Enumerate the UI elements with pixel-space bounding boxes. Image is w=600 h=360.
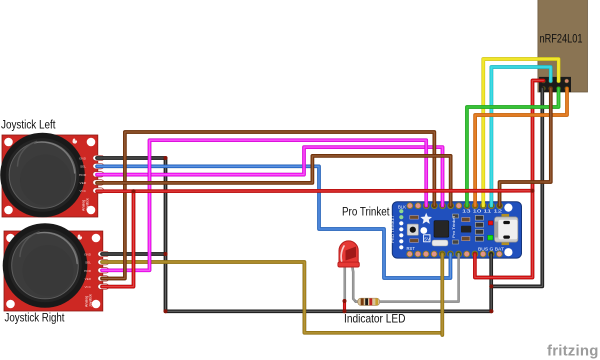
svg-text:Joystick: Joystick <box>89 294 93 307</box>
svg-text:13 10 11 12: 13 10 11 12 <box>462 209 503 214</box>
svg-text:5V: 5V <box>424 237 431 242</box>
svg-text:GND: GND <box>84 253 92 257</box>
svg-text:Pro Trinket: Pro Trinket <box>342 206 390 218</box>
svg-text:SEL: SEL <box>85 261 91 265</box>
svg-text:Indicator LED: Indicator LED <box>344 312 406 325</box>
svg-text:nRF24L01: nRF24L01 <box>540 32 583 46</box>
svg-text:GND: GND <box>79 157 87 161</box>
svg-text:VER: VER <box>85 277 92 281</box>
svg-text:VER: VER <box>80 181 87 185</box>
svg-text:Joystick Left: Joystick Left <box>1 118 56 132</box>
svg-text:fritzing: fritzing <box>547 343 599 360</box>
svg-text:BUS G BAT: BUS G BAT <box>478 246 505 251</box>
svg-text:BLK: BLK <box>398 205 406 210</box>
svg-text:SEL: SEL <box>80 165 86 169</box>
svg-text:Joystick: Joystick <box>86 198 90 211</box>
svg-text:Pro Trinket: Pro Trinket <box>452 215 456 238</box>
svg-text:PRO TRINKET: PRO TRINKET <box>391 214 395 243</box>
svg-text:HOR: HOR <box>79 173 87 177</box>
svg-text:VCC: VCC <box>79 189 86 193</box>
svg-text:HOR: HOR <box>84 269 92 273</box>
svg-text:RST: RST <box>407 246 416 251</box>
svg-text:VCC: VCC <box>84 285 91 289</box>
svg-text:Joystick Right: Joystick Right <box>5 310 65 324</box>
